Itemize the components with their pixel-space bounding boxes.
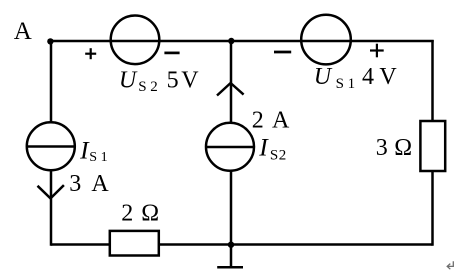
svg-text:A: A bbox=[14, 18, 32, 45]
current source I_S2 (circle with bar) bbox=[206, 123, 254, 171]
wire top (node A to top-right corner) bbox=[50, 40, 434, 43]
svg-text:3: 3 bbox=[69, 171, 81, 197]
node A dot bbox=[47, 38, 53, 44]
svg-text:A: A bbox=[272, 107, 290, 133]
svg-text:2: 2 bbox=[121, 200, 133, 226]
wire bottom bbox=[51, 243, 433, 246]
minus sign left bbox=[164, 52, 179, 55]
current source I_S1 (circle with bar) bbox=[27, 122, 75, 170]
svg-text:S 2: S 2 bbox=[138, 79, 158, 95]
svg-text:4: 4 bbox=[362, 64, 374, 90]
svg-text:3: 3 bbox=[376, 135, 388, 161]
voltage source U_S2 (circle) bbox=[111, 16, 160, 65]
label 3 ohm bbox=[376, 135, 412, 161]
svg-text:U: U bbox=[314, 64, 333, 90]
svg-text:S 1: S 1 bbox=[336, 76, 356, 92]
node dot bottom middle bbox=[228, 242, 234, 248]
svg-text:2: 2 bbox=[252, 107, 264, 133]
arrow 3A down (left branch) bbox=[38, 185, 64, 198]
svg-text:A: A bbox=[91, 171, 109, 197]
label I_S2 bbox=[258, 133, 286, 164]
svg-text:Ω: Ω bbox=[141, 200, 159, 226]
svg-text:Ω: Ω bbox=[394, 135, 412, 161]
svg-text:S2: S2 bbox=[270, 148, 287, 164]
svg-text:5: 5 bbox=[167, 68, 179, 94]
resistor 2 ohm (rect) bbox=[110, 231, 159, 256]
paragraph return mark bbox=[447, 261, 453, 269]
plus sign left bbox=[85, 48, 96, 59]
voltage source U_S1 (circle) bbox=[301, 15, 351, 65]
resistor 3 ohm (rect) bbox=[420, 121, 445, 171]
wire left branch bbox=[50, 40, 53, 246]
plus sign right bbox=[370, 44, 384, 58]
arrow 2A up (middle branch) bbox=[217, 83, 244, 96]
svg-text:V: V bbox=[379, 64, 397, 90]
label U_S2 5 V bbox=[119, 68, 199, 95]
svg-text:V: V bbox=[181, 68, 199, 94]
wire middle branch bbox=[230, 40, 233, 267]
svg-text:S 1: S 1 bbox=[89, 150, 107, 165]
label I_S1 bbox=[79, 136, 107, 165]
label U_S1 4 V bbox=[314, 64, 398, 92]
wire right branch bbox=[431, 40, 434, 246]
label 2 ohm bbox=[121, 200, 159, 226]
node dot top middle bbox=[228, 38, 234, 44]
svg-text:I: I bbox=[258, 133, 269, 162]
ground bbox=[217, 266, 243, 269]
minus sign right bbox=[274, 51, 291, 54]
svg-text:U: U bbox=[119, 68, 138, 94]
